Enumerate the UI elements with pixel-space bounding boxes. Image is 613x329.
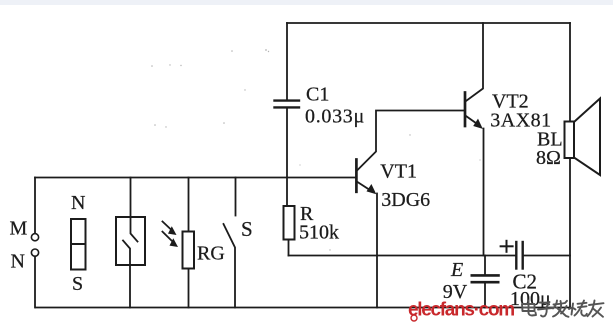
svg-text:E: E [450, 259, 463, 281]
svg-text:C1: C1 [306, 83, 329, 105]
svg-text:N: N [71, 192, 85, 214]
svg-text:RG: RG [197, 243, 225, 265]
svg-text:S: S [241, 217, 253, 241]
svg-text:8Ω: 8Ω [536, 147, 561, 169]
svg-text:S: S [72, 273, 83, 295]
svg-text:510k: 510k [299, 222, 339, 244]
svg-text:100μ: 100μ [510, 288, 551, 310]
svg-text:0.033μ: 0.033μ [305, 105, 365, 127]
svg-text:N: N [11, 250, 25, 272]
svg-text:3DG6: 3DG6 [381, 189, 430, 211]
svg-text:elecfans·com: elecfans·com [408, 300, 514, 321]
svg-text:M: M [10, 218, 28, 240]
svg-text:VT1: VT1 [380, 161, 417, 183]
